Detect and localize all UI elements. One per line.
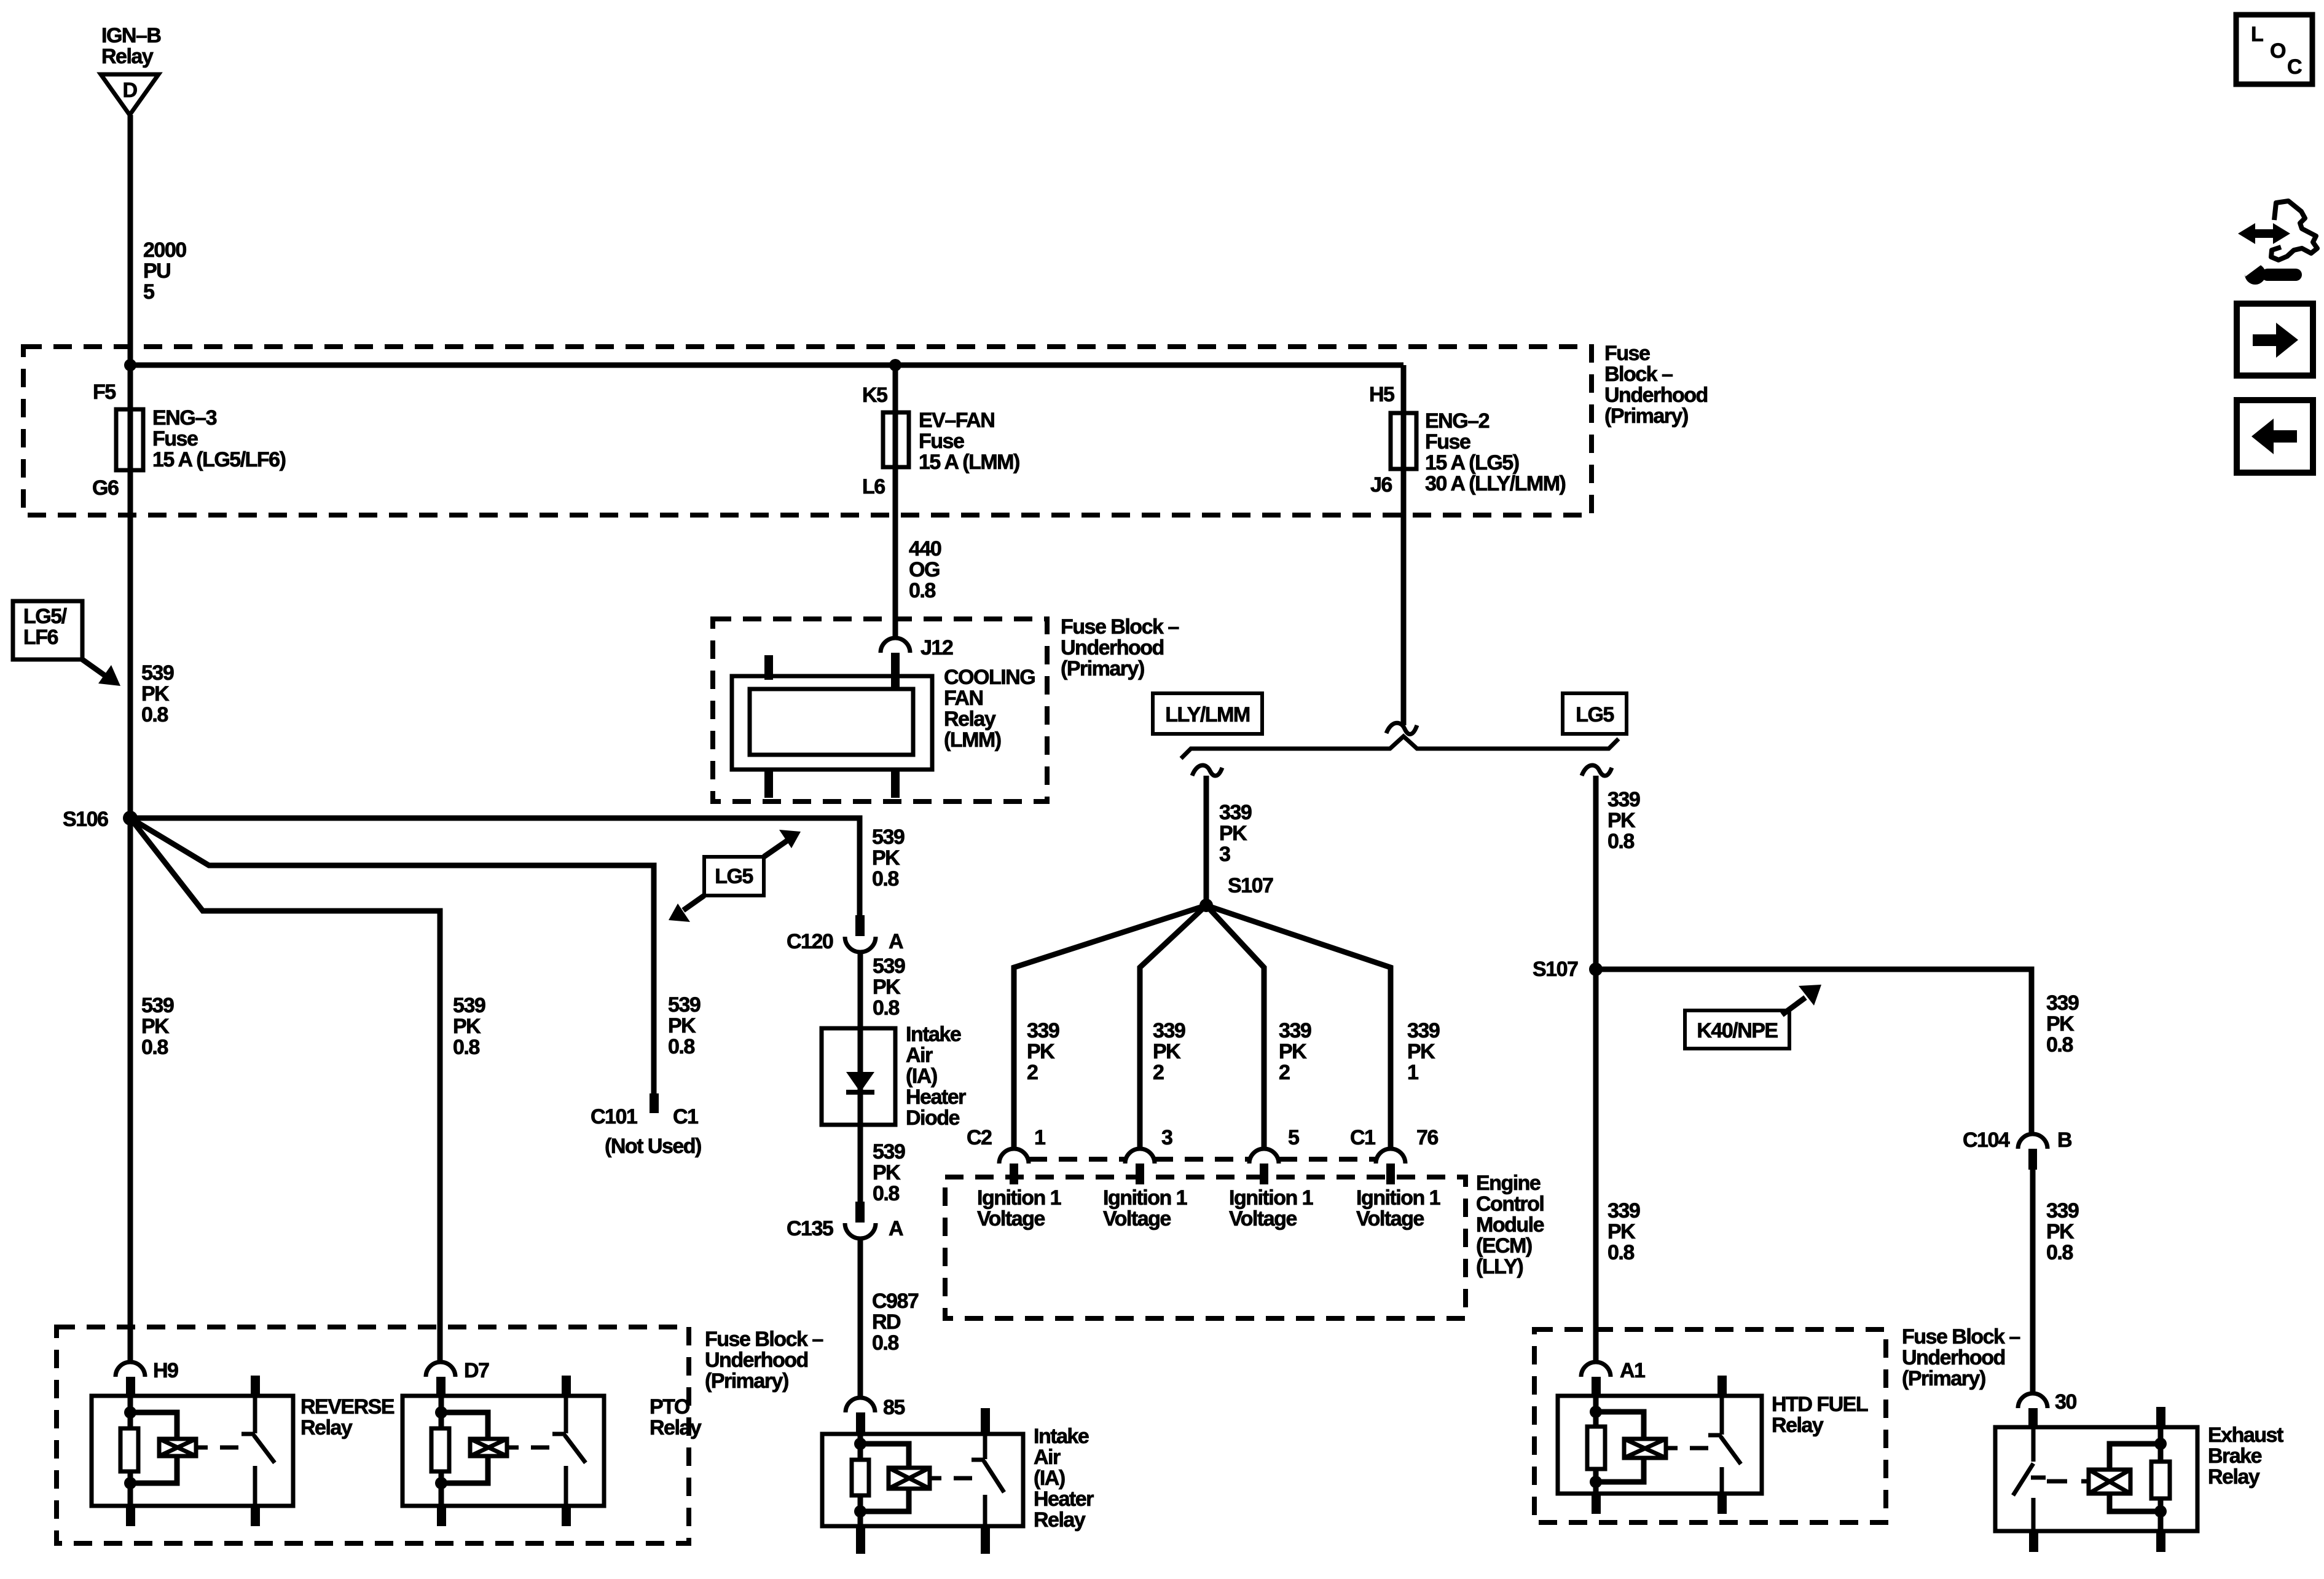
svg-text:Voltage: Voltage (1356, 1207, 1424, 1231)
LLY/LMM tag box (1153, 693, 1262, 734)
Engine Control Module (ECM) (LLY) label (1476, 1171, 1544, 1278)
svg-text:Underhood: Underhood (1604, 384, 1708, 407)
wire LLY/LMM branch down to S107 (1204, 776, 1209, 905)
svg-text:3: 3 (1219, 843, 1230, 866)
svg-text:ENG–2: ENG–2 (1425, 409, 1490, 433)
svg-text:PK: PK (453, 1015, 481, 1038)
svg-text:2000: 2000 (143, 238, 186, 262)
svg-text:Relay: Relay (2208, 1465, 2260, 1489)
exhaust relay resistor (2151, 1462, 2170, 1498)
svg-text:0.8: 0.8 (873, 1182, 899, 1205)
svg-text:Ignition 1: Ignition 1 (1229, 1186, 1313, 1210)
svg-text:3: 3 (1161, 1126, 1172, 1149)
pto relay pin below switch (562, 1506, 571, 1526)
svg-text:Block –: Block – (1604, 363, 1673, 386)
svg-text:0.8: 0.8 (141, 1036, 168, 1059)
Exhaust Brake Relay label (2208, 1423, 2283, 1489)
connector 85 (intake air heater relay) (846, 1398, 875, 1434)
reverse relay coil branch wire (128, 1396, 133, 1506)
connector label C101 / C1 (591, 1105, 698, 1128)
connector C1 pin 76 (1376, 1149, 1405, 1184)
svg-text:Voltage: Voltage (1103, 1207, 1171, 1231)
C101 terminal stub (650, 1093, 659, 1113)
wire from triangle D down to fuse block (128, 115, 133, 365)
Ignition 1 Voltage label (pin 5) (1229, 1186, 1313, 1231)
wire S107 to ECM pin 1 (1014, 905, 1206, 1149)
svg-text:Underhood: Underhood (1061, 636, 1164, 660)
reverse relay junction dot bottom (124, 1477, 136, 1489)
svg-text:339: 339 (1608, 788, 1640, 811)
svg-text:PK: PK (873, 975, 901, 999)
intake relay pin below switch (981, 1526, 990, 1554)
svg-text:2: 2 (1279, 1061, 1290, 1084)
wire S107 right to exhaust brake column (1596, 969, 2032, 1135)
svg-text:339: 339 (1153, 1019, 1185, 1042)
squiggle on LG5 branch (1582, 765, 1612, 776)
svg-text:Ignition 1: Ignition 1 (977, 1186, 1061, 1210)
Fuse Block label (cooling fan) (1061, 615, 1179, 680)
svg-text:30: 30 (2055, 1390, 2076, 1414)
Intake Air (IA) Heater Diode (822, 1028, 895, 1125)
svg-text:PK: PK (1219, 822, 1247, 845)
exhaust relay dashes (2047, 1479, 2089, 1484)
wire label 339 PK 0.8 (above C104) (2046, 991, 2079, 1057)
LG5 double arrow (669, 830, 801, 922)
wire label C987 RD 0.8 (872, 1290, 919, 1355)
wire label 539 PK 0.8 (above diode) (873, 955, 905, 1020)
svg-text:0.8: 0.8 (453, 1036, 479, 1059)
svg-text:(Primary): (Primary) (1061, 657, 1144, 680)
svg-text:440: 440 (909, 537, 941, 561)
fuse ENG-2 label (1425, 409, 1566, 495)
fuse ENG-3 (116, 409, 143, 470)
wire label 339 PK 0.8 (upper right) (1608, 788, 1640, 853)
svg-text:HTD FUEL: HTD FUEL (1772, 1393, 1868, 1416)
LG5 tag box (right) (1563, 693, 1627, 734)
svg-text:Ignition 1: Ignition 1 (1356, 1186, 1440, 1210)
svg-text:PK: PK (668, 1014, 696, 1038)
wire S106 to C120 branch (130, 818, 860, 918)
Ignition 1 Voltage label (pin 1) (977, 1186, 1061, 1231)
svg-text:5: 5 (1288, 1126, 1299, 1149)
wire label 2000 PU 5 (143, 238, 186, 304)
svg-text:2: 2 (1153, 1061, 1164, 1084)
wire label 539 PK 0.8 (C101 branch) (668, 993, 701, 1058)
svg-text:0.8: 0.8 (1608, 1241, 1634, 1264)
Exhaust Brake Relay box (1995, 1427, 2197, 1531)
exhaust relay pin above resistor (2156, 1407, 2165, 1427)
junction node at F5 column (124, 359, 136, 371)
svg-text:(LMM): (LMM) (944, 728, 1001, 752)
svg-text:Engine: Engine (1476, 1171, 1541, 1195)
wire label 539 PK 0.8 (below diode) (873, 1140, 905, 1205)
svg-text:Exhaust: Exhaust (2208, 1423, 2283, 1447)
svg-text:0.8: 0.8 (873, 996, 899, 1020)
back arrow box (2237, 400, 2313, 473)
svg-text:PU: PU (143, 259, 170, 283)
svg-text:Voltage: Voltage (1229, 1207, 1297, 1231)
svg-text:C: C (2287, 55, 2302, 79)
COOLING FAN Relay label (944, 666, 1035, 752)
svg-text:0.8: 0.8 (2046, 1033, 2073, 1057)
svg-text:PK: PK (873, 1161, 901, 1184)
splice node S106 (123, 811, 138, 825)
K40/NPE arrow (1782, 985, 1821, 1015)
svg-text:EV–FAN: EV–FAN (919, 409, 994, 432)
svg-text:PK: PK (1027, 1040, 1055, 1063)
svg-text:0.8: 0.8 (872, 1331, 898, 1355)
svg-text:Air: Air (1034, 1446, 1061, 1469)
PTO Relay box (402, 1396, 604, 1506)
svg-text:(Primary): (Primary) (1604, 404, 1688, 428)
svg-text:2: 2 (1027, 1061, 1038, 1084)
svg-text:Relay: Relay (1772, 1414, 1824, 1437)
wire label 339 PK 3 (1219, 801, 1252, 866)
wire label 339 PK 2 (pin 1) (1027, 1019, 1059, 1084)
svg-text:339: 339 (1279, 1019, 1311, 1042)
connector C2 pin 1 (999, 1149, 1029, 1184)
svg-text:Control: Control (1476, 1192, 1544, 1216)
svg-text:Brake: Brake (2208, 1444, 2262, 1468)
reverse relay dashes (220, 1446, 238, 1450)
svg-text:Relay: Relay (1034, 1508, 1086, 1532)
intake relay junction dot top (854, 1438, 866, 1450)
LOC box (top right) (2236, 15, 2312, 84)
svg-text:D: D (122, 79, 137, 102)
svg-text:539: 539 (453, 994, 485, 1017)
fuse ENG-2 (1391, 413, 1416, 469)
pto relay coil loop (441, 1412, 488, 1483)
Intake Air (IA) Heater Relay box (822, 1434, 1023, 1526)
wire LG5 branch down to S107 (1593, 776, 1599, 969)
svg-text:A: A (889, 1217, 903, 1240)
wire F5 column down through fuse (128, 365, 133, 1362)
svg-text:L: L (2251, 23, 2263, 46)
svg-text:0.8: 0.8 (141, 703, 168, 726)
svg-text:15 A (LG5/LF6): 15 A (LG5/LF6) (152, 448, 286, 471)
svg-text:C120: C120 (787, 930, 833, 953)
pto relay coil (470, 1439, 519, 1456)
svg-text:Fuse Block –: Fuse Block – (1902, 1325, 2020, 1349)
svg-text:Voltage: Voltage (977, 1207, 1045, 1231)
svg-text:Relay: Relay (944, 707, 996, 731)
splice node S107 (right) (1589, 963, 1603, 976)
PTO Relay label (650, 1395, 702, 1439)
svg-text:76: 76 (1416, 1126, 1438, 1149)
svg-text:J12: J12 (921, 636, 953, 660)
htd relay coil branch wire (1593, 1396, 1599, 1494)
Ignition 1 Voltage label (pin 76) (1356, 1186, 1440, 1231)
connector label C135 / A (787, 1217, 903, 1240)
htd relay junction dot top (1590, 1406, 1602, 1418)
relay pin stub bottom-left (764, 770, 773, 798)
svg-text:Relay: Relay (101, 45, 154, 68)
pto relay coil branch wire (439, 1396, 444, 1506)
pto relay junction dot top (435, 1406, 447, 1419)
svg-text:LG5: LG5 (1576, 703, 1614, 726)
svg-text:A: A (889, 930, 903, 953)
htd relay pin below left (1592, 1494, 1601, 1514)
intake relay switch (972, 1408, 1004, 1526)
svg-text:339: 339 (1407, 1019, 1440, 1042)
svg-text:539: 539 (668, 993, 701, 1017)
Intake Air (IA) Heater Relay label (1034, 1425, 1094, 1532)
svg-text:PK: PK (872, 846, 900, 870)
IGN-B Relay label (101, 24, 161, 68)
wire label 539 PK 0.8 (C120 branch) (872, 825, 905, 891)
LG5/LF6 tag box (13, 601, 82, 660)
svg-text:539: 539 (873, 1140, 905, 1164)
intake relay coil (889, 1468, 941, 1489)
svg-text:Fuse: Fuse (152, 427, 198, 451)
exhaust relay pin below resistor (2156, 1531, 2165, 1552)
connector J12 (881, 638, 910, 690)
svg-text:(LLY): (LLY) (1476, 1255, 1523, 1278)
svg-text:Fuse: Fuse (1604, 342, 1650, 365)
wire label 539 PK 0.8 (PTO branch) (453, 994, 485, 1059)
svg-text:PK: PK (141, 1015, 170, 1038)
svg-text:Fuse Block –: Fuse Block – (1061, 615, 1179, 639)
wire C120 to diode (858, 952, 863, 1028)
svg-text:0.8: 0.8 (1608, 830, 1634, 853)
wire label 339 PK 2 (pin 3) (1153, 1019, 1185, 1084)
svg-text:LF6: LF6 (23, 626, 58, 649)
exhaust relay coil (2089, 1470, 2130, 1494)
svg-text:(Not Used): (Not Used) (605, 1135, 701, 1158)
svg-text:0.8: 0.8 (2046, 1241, 2073, 1264)
COOLING FAN Relay box (732, 676, 932, 770)
svg-text:539: 539 (141, 994, 174, 1017)
intake relay junction dot bottom (854, 1505, 866, 1518)
svg-text:K5: K5 (862, 384, 887, 407)
svg-text:C1: C1 (1350, 1126, 1375, 1149)
svg-text:Diode: Diode (906, 1106, 960, 1130)
svg-text:Underhood: Underhood (705, 1349, 808, 1372)
triangle D (IGN-B Relay source symbol) (101, 74, 159, 115)
splice break squiggle on H5 wire (1386, 723, 1417, 734)
svg-text:0.8: 0.8 (909, 579, 935, 602)
relay pin stub top-left (764, 655, 773, 680)
wire label 339 PK 1 (pin 76) (1407, 1019, 1440, 1084)
htd relay resistor (1587, 1427, 1605, 1469)
wire S107 down to HTD FUEL relay (1593, 969, 1599, 1363)
svg-text:Heater: Heater (1034, 1487, 1094, 1511)
reverse relay resistor (120, 1428, 138, 1471)
svg-text:15 A (LMM): 15 A (LMM) (919, 451, 1019, 474)
relay pin stub bottom-right (891, 770, 900, 798)
pto relay pin below left (437, 1506, 446, 1526)
splice node S107 (1199, 899, 1213, 912)
svg-text:5: 5 (143, 280, 154, 304)
wire label 339 PK 2 (pin 5) (1279, 1019, 1311, 1084)
svg-text:339: 339 (2046, 991, 2079, 1015)
wire diode to C135 (858, 1125, 863, 1205)
exhaust relay right branch wire (2158, 1427, 2164, 1531)
reverse relay switch (241, 1376, 275, 1506)
bus wire inside fuse block (130, 363, 1403, 368)
wire C135 to relay 85 (858, 1238, 863, 1399)
fuse EV-FAN (883, 412, 909, 467)
svg-text:REVERSE: REVERSE (300, 1395, 395, 1419)
svg-text:Air: Air (906, 1044, 933, 1067)
intake relay pin below left (856, 1526, 865, 1554)
svg-text:Module: Module (1476, 1213, 1544, 1237)
svg-text:PK: PK (1279, 1040, 1307, 1063)
REVERSE Relay box (92, 1396, 293, 1506)
harness split bar with chevron (1181, 736, 1619, 758)
svg-text:Heater: Heater (906, 1085, 966, 1109)
exhaust relay coil loop wires (2110, 1444, 2161, 1511)
wire H5 column down to split (1401, 365, 1407, 725)
exhaust relay pin below switch (2029, 1531, 2038, 1552)
svg-text:(IA): (IA) (1034, 1467, 1065, 1490)
svg-text:C987: C987 (872, 1290, 919, 1313)
svg-text:G6: G6 (92, 476, 119, 500)
pto relay resistor (431, 1428, 449, 1471)
svg-text:S107: S107 (1533, 958, 1578, 981)
svg-text:C2: C2 (967, 1126, 992, 1149)
svg-text:PK: PK (1153, 1040, 1181, 1063)
htd relay dashes (1690, 1446, 1708, 1451)
wire S106 to PTO branch (130, 818, 440, 1362)
svg-text:0.8: 0.8 (872, 867, 898, 891)
svg-text:IGN–B: IGN–B (101, 24, 161, 47)
svg-text:LLY/LMM: LLY/LMM (1165, 703, 1250, 726)
fuse EV-FAN label (919, 409, 1019, 474)
wire label 339 PK 0.8 (above A1) (1608, 1199, 1640, 1264)
svg-text:OG: OG (909, 558, 940, 581)
svg-text:PK: PK (1608, 1220, 1636, 1243)
svg-text:L6: L6 (862, 475, 885, 498)
Fuse Block label (right of top box) (1604, 342, 1708, 428)
Fuse Block dashed box around cooling fan relay (713, 619, 1047, 801)
wire C104 down to exhaust brake relay (2030, 1167, 2036, 1393)
svg-text:339: 339 (1027, 1019, 1059, 1042)
exhaust relay junction dots (2154, 1438, 2167, 1518)
connector label C120 / A (787, 930, 903, 953)
svg-text:1: 1 (1407, 1061, 1418, 1084)
svg-text:0.8: 0.8 (668, 1035, 694, 1058)
wire label 539 PK 0.8 (above S106) (141, 661, 174, 726)
svg-text:C135: C135 (787, 1217, 833, 1240)
Fuse Block dashed box (HTD FUEL) (1534, 1329, 1886, 1522)
svg-text:15 A (LG5): 15 A (LG5) (1425, 451, 1519, 474)
LG5 tag box (middle) (704, 857, 764, 896)
svg-text:(Primary): (Primary) (705, 1369, 788, 1393)
Fuse Block dashed box (bottom left, REVERSE/PTO) (57, 1327, 689, 1543)
Fuse Block - Underhood (Primary) dashed box (top) (23, 347, 1592, 515)
svg-text:Fuse Block –: Fuse Block – (705, 1328, 823, 1351)
wire label 539 PK 0.8 (REVERSE branch) (141, 994, 174, 1059)
htd relay pin below switch (1717, 1494, 1727, 1514)
svg-text:(IA): (IA) (906, 1065, 937, 1088)
intake relay coil loop (860, 1444, 909, 1511)
svg-text:PTO: PTO (650, 1395, 690, 1419)
K40/NPE tag box (1685, 1010, 1789, 1049)
htd relay junction dot bottom (1590, 1476, 1602, 1488)
svg-text:H9: H9 (153, 1359, 178, 1382)
navigate icon (double arrow, pointer outline, wrench) (2238, 201, 2317, 285)
connector H9 (116, 1362, 145, 1396)
svg-text:539: 539 (141, 661, 174, 685)
Engine Control Module dashed box (945, 1177, 1466, 1318)
svg-text:J6: J6 (1370, 473, 1392, 497)
svg-text:FAN: FAN (944, 687, 983, 710)
connector D7 (426, 1362, 455, 1396)
pto relay dashes (531, 1446, 549, 1450)
svg-text:F5: F5 (93, 380, 116, 404)
svg-text:(Primary): (Primary) (1902, 1367, 1985, 1390)
reverse relay pin below switch (251, 1506, 260, 1526)
svg-text:Relay: Relay (300, 1416, 353, 1439)
REVERSE Relay label (300, 1395, 395, 1439)
svg-text:PK: PK (2046, 1012, 2075, 1036)
exhaust relay switch (2013, 1427, 2046, 1531)
svg-text:PK: PK (2046, 1220, 2075, 1243)
svg-text:PK: PK (1608, 809, 1636, 832)
LG5/LF6 arrow (82, 660, 120, 686)
connector C120 (845, 915, 876, 952)
reverse relay pin below left (126, 1506, 135, 1526)
wire K5 column down to cooling fan relay (893, 365, 898, 638)
connector C2/C1 labels (967, 1126, 1438, 1149)
junction node at K5 column (889, 359, 901, 371)
pto relay switch (552, 1376, 586, 1506)
wire label 440 OG 0.8 (909, 537, 941, 602)
svg-text:Intake: Intake (1034, 1425, 1089, 1448)
connector pin 5 (1249, 1149, 1279, 1184)
svg-text:RD: RD (872, 1310, 901, 1334)
svg-text:C101: C101 (591, 1105, 637, 1128)
Ignition 1 Voltage label (pin 3) (1103, 1186, 1187, 1231)
connector A1 (1581, 1362, 1611, 1396)
intake relay resistor (852, 1460, 869, 1495)
svg-text:539: 539 (873, 955, 905, 978)
svg-text:S107: S107 (1228, 874, 1273, 897)
pto relay junction dot bottom (435, 1477, 447, 1489)
wire S107 to ECM pin 76 (1206, 905, 1391, 1149)
svg-text:1: 1 (1034, 1126, 1045, 1149)
svg-text:Fuse: Fuse (1425, 430, 1470, 454)
svg-text:A1: A1 (1620, 1359, 1645, 1382)
dashed connector line between pins (1029, 1157, 1376, 1162)
wire S106 to C101 branch (130, 818, 654, 1112)
wire S107 to ECM pin 5 (1206, 905, 1264, 1149)
htd relay coil (1624, 1439, 1678, 1458)
svg-text:C104: C104 (1963, 1128, 2010, 1152)
reverse relay junction dot top (124, 1406, 136, 1419)
connector 30 (exhaust brake relay) (2018, 1393, 2047, 1428)
svg-text:Intake: Intake (906, 1023, 961, 1046)
wire label 339 PK 0.8 (above 30) (2046, 1199, 2079, 1264)
forward arrow box (2237, 304, 2313, 376)
svg-text:539: 539 (872, 825, 905, 849)
svg-text:85: 85 (883, 1396, 905, 1419)
Fuse Block label (bottom left) (705, 1328, 823, 1393)
svg-text:Relay: Relay (650, 1416, 702, 1439)
HTD FUEL Relay label (1772, 1393, 1868, 1437)
svg-text:PK: PK (1407, 1040, 1435, 1063)
svg-text:Ignition 1: Ignition 1 (1103, 1186, 1187, 1210)
wire S107 to ECM pin 3 (1140, 905, 1206, 1149)
intake relay coil branch wire (858, 1434, 863, 1526)
connector label C104 / B (1963, 1128, 2072, 1152)
svg-text:LG5/: LG5/ (23, 605, 68, 628)
HTD FUEL Relay box (1558, 1396, 1762, 1494)
svg-text:Underhood: Underhood (1902, 1346, 2005, 1369)
svg-text:Fuse: Fuse (919, 430, 964, 453)
svg-text:H5: H5 (1369, 383, 1394, 406)
